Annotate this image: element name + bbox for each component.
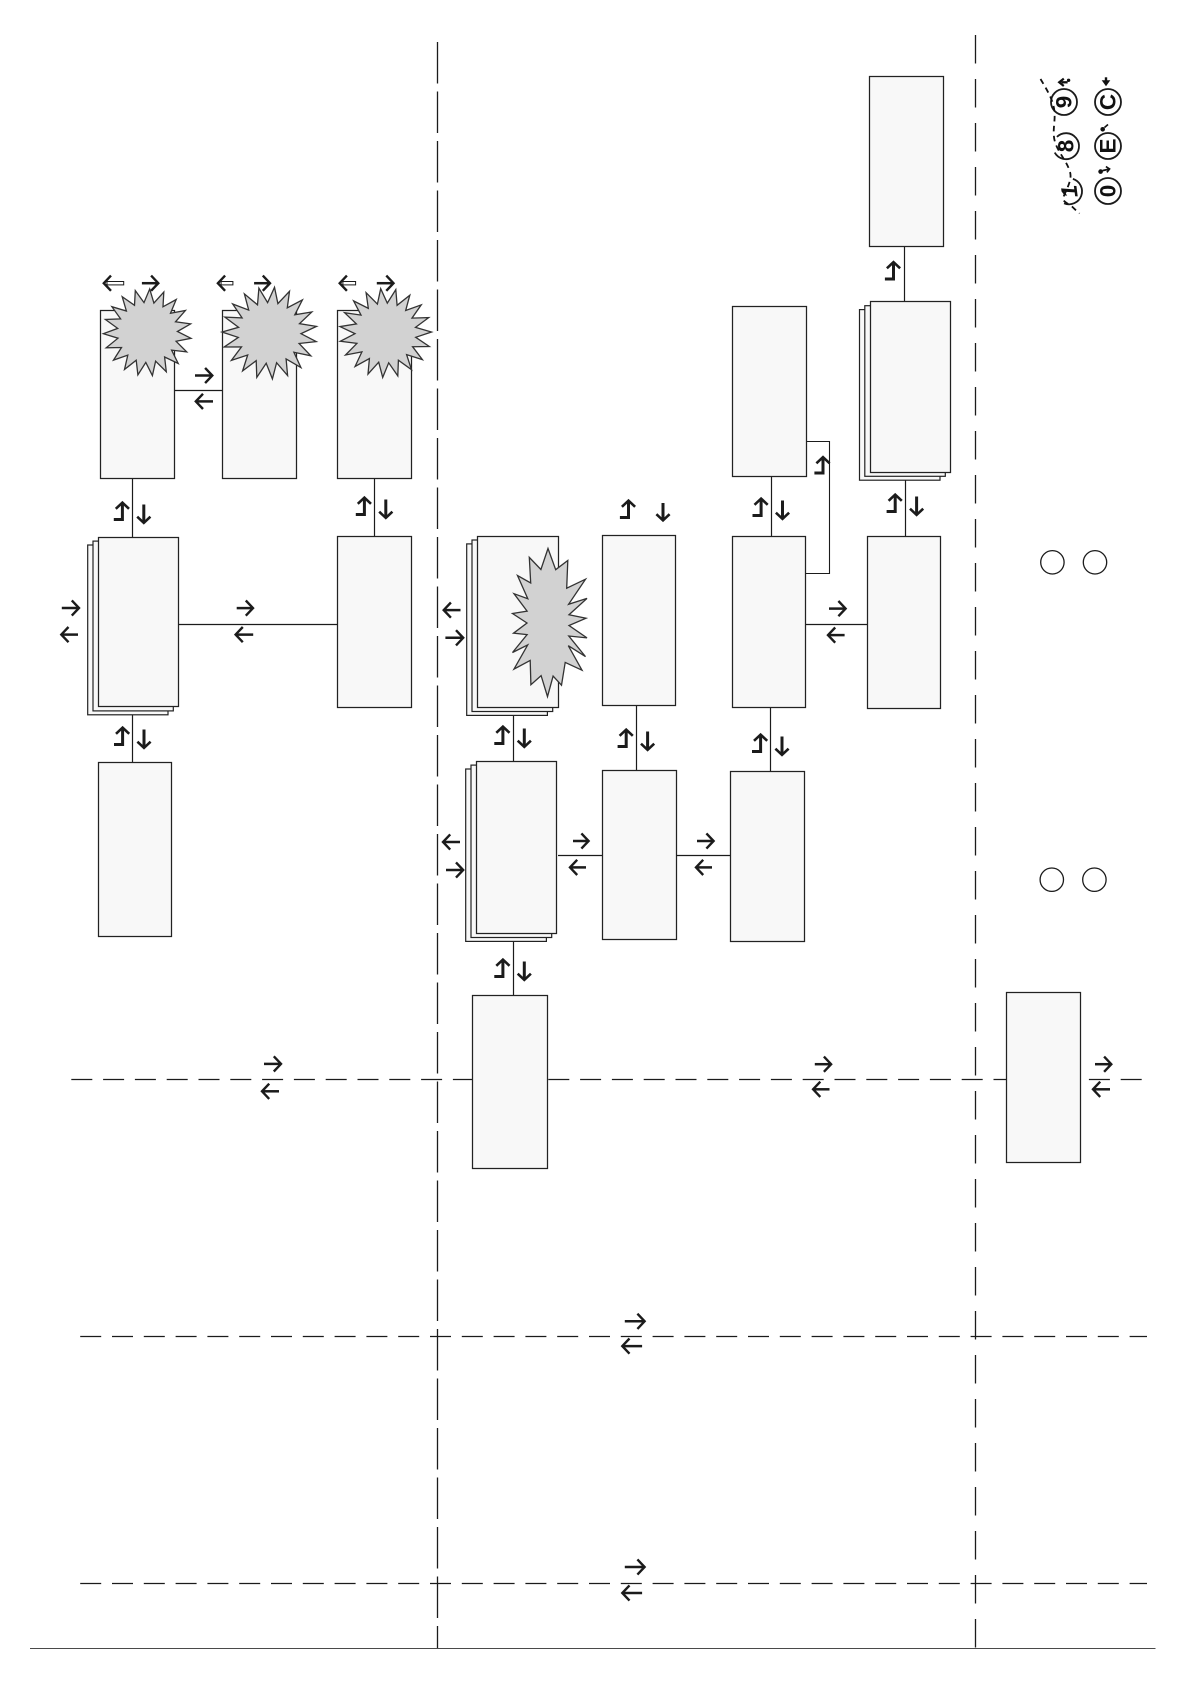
mark near 0 <box>1098 167 1109 174</box>
stacked screens R2b <box>467 537 559 716</box>
wire C3 R2d-R2e <box>806 624 867 626</box>
circle pair lower right <box>1083 868 1106 891</box>
screen box R2c <box>603 536 676 706</box>
screen box R1d <box>733 307 807 477</box>
circled 8 <box>1054 133 1080 159</box>
swipe arrows above S3 <box>340 276 394 291</box>
arrows R2a-R4a <box>114 728 151 748</box>
circled 0 <box>1095 178 1121 204</box>
screen box R4b <box>473 996 548 1169</box>
arrow on loop <box>814 457 829 473</box>
arrows on H3 <box>622 1559 644 1600</box>
fold line vertical V1 <box>437 42 439 1648</box>
edge arrows left of R2b <box>444 603 464 646</box>
fold line horizontal H2 <box>80 1336 1147 1338</box>
starburst S3 <box>340 289 432 378</box>
svg-text:0: 0 <box>1096 185 1121 198</box>
starburst S1 <box>103 289 191 376</box>
arrows R3b-R4b <box>494 960 531 980</box>
stacked screens R1e <box>860 302 951 481</box>
wire R2d to R3d <box>770 708 772 772</box>
arrows on C4 <box>570 833 589 875</box>
screen box R5 <box>1007 993 1081 1163</box>
wire R1c to R3a <box>374 478 376 537</box>
wire C4 R2b-R2c <box>558 855 602 857</box>
arrows R1a-R2a <box>114 503 151 523</box>
stacked screens R2a <box>88 538 179 715</box>
wire R1d to R2d <box>771 477 773 537</box>
screen box R1a <box>101 311 175 479</box>
loop wire R1d-R2d back <box>806 442 830 574</box>
arrows R1e-R2e <box>887 495 924 515</box>
screen box R3d <box>731 772 805 942</box>
wire C2 R2a-R3a <box>179 624 338 626</box>
starburst S4 tall <box>513 549 588 697</box>
circled 9 <box>1051 89 1077 115</box>
arrows R1c-R3a <box>356 498 393 518</box>
screen box R3a <box>338 537 412 708</box>
edge arrows left of R2a <box>61 600 79 642</box>
circled E <box>1095 133 1121 159</box>
wire C1 R1a-R1b <box>174 390 223 392</box>
circle pair lower left <box>1040 868 1063 891</box>
arrows R2d-R3d <box>752 735 789 755</box>
circle pair upper right <box>1083 551 1106 574</box>
wire R3b to R4b <box>513 941 515 996</box>
bottom rule <box>30 1648 1156 1650</box>
starburst S2 <box>222 287 317 379</box>
wire C5 R3c-R3d <box>676 855 731 857</box>
screen box R2e <box>868 537 941 709</box>
screen box R1c <box>338 311 412 479</box>
mark near E <box>1100 125 1108 132</box>
arrows on H1 right <box>1093 1057 1111 1097</box>
arrows on H1 left <box>262 1056 281 1099</box>
svg-text:9: 9 <box>1052 96 1077 109</box>
fold line horizontal H1 <box>71 1079 1148 1081</box>
screen box R0 top <box>870 77 944 247</box>
arrows R2b-R3b <box>494 727 531 747</box>
wire R2a to R4a <box>132 715 134 763</box>
edge arrows left of R3b <box>443 834 463 877</box>
arrows R2c-R3c <box>618 730 655 750</box>
arc around 1 <box>1056 179 1082 204</box>
wire R0 to R1e <box>904 246 906 302</box>
screen box R2d <box>733 537 806 708</box>
arrows on H1 mid <box>813 1057 831 1097</box>
wire R1a to R2a <box>132 478 134 537</box>
wire R2c to R3c <box>636 705 638 770</box>
mark above 9 <box>1059 79 1070 86</box>
swipe arrows above S2 <box>218 276 270 291</box>
svg-text:C: C <box>1096 94 1121 110</box>
arrows R1d-R2d <box>753 499 790 519</box>
svg-text:E: E <box>1096 138 1121 153</box>
swipe arrows above S1 <box>104 276 159 291</box>
fold line horizontal H3 <box>80 1583 1147 1585</box>
arrow R0-R1e <box>885 262 900 279</box>
torn edge squiggle <box>1041 79 1080 214</box>
wire R1e to R2e <box>905 479 907 537</box>
arrows on C3 <box>828 601 846 643</box>
screen box R3c <box>603 771 677 940</box>
wire R2b to R3b <box>513 715 515 761</box>
stacked screens R3b <box>466 762 557 942</box>
mark above C <box>1102 77 1111 86</box>
circled C <box>1095 89 1121 115</box>
arrows on C1 <box>195 368 213 409</box>
fold line vertical V2 <box>975 35 977 1648</box>
arrows on C5 <box>696 833 714 875</box>
screen box R4a <box>99 763 172 937</box>
screen box R1b <box>223 311 297 479</box>
arrows above R2c detached <box>620 501 670 521</box>
arrows on C2 <box>236 601 254 643</box>
circle pair upper left <box>1041 551 1064 574</box>
arrows on H2 <box>622 1314 644 1354</box>
